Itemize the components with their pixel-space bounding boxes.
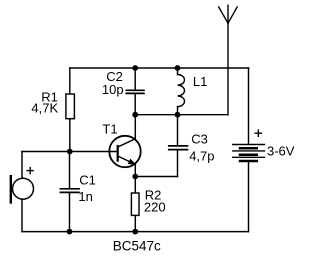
node dot C2 top xyxy=(132,65,138,71)
svg-text:10p: 10p xyxy=(102,82,124,97)
svg-text:1n: 1n xyxy=(78,189,92,204)
inductor L1 xyxy=(178,68,185,115)
battery BT1 xyxy=(233,68,265,232)
node dot L1 top xyxy=(175,65,181,71)
wire R1 bottom xyxy=(69,119,71,152)
wire top rail Vcc xyxy=(70,67,249,69)
battery plus sign xyxy=(255,130,261,136)
svg-text:4,7K: 4,7K xyxy=(31,100,58,115)
capacitor C2 xyxy=(126,68,144,115)
svg-text:BC547c: BC547c xyxy=(113,238,161,253)
mic plus sign xyxy=(27,168,33,174)
wire base node line xyxy=(22,151,118,153)
wire mic top xyxy=(21,152,23,179)
svg-text:4,7p: 4,7p xyxy=(189,148,214,163)
wire tank node line xyxy=(135,114,228,116)
node dot base xyxy=(67,149,73,155)
wire mic bottom xyxy=(21,199,23,231)
svg-text:220: 220 xyxy=(144,200,166,215)
node dot R2 bottom xyxy=(132,229,138,235)
svg-text:T1: T1 xyxy=(102,122,117,137)
resistor R1 xyxy=(66,94,75,119)
wire collector xyxy=(134,115,136,139)
node dot C2 bottom xyxy=(132,112,138,118)
wire emitter node line xyxy=(135,176,177,178)
microphone MIC xyxy=(11,176,34,202)
node dot L1 bottom xyxy=(175,112,181,118)
svg-text:C3: C3 xyxy=(191,131,208,146)
capacitor C3 xyxy=(169,115,188,177)
capacitor C1 xyxy=(60,152,79,232)
node dot C1 bottom xyxy=(67,229,73,235)
antenna ANT xyxy=(219,5,238,115)
transistor T1 xyxy=(109,136,140,167)
node dot emitter xyxy=(132,174,138,180)
wire bottom rail xyxy=(22,231,249,233)
svg-text:L1: L1 xyxy=(193,74,207,89)
svg-text:3-6V: 3-6V xyxy=(267,144,295,159)
resistor R2 xyxy=(131,177,139,232)
wire emitter xyxy=(134,164,136,176)
svg-text:C1: C1 xyxy=(79,173,96,188)
wire R1 top xyxy=(69,68,71,94)
